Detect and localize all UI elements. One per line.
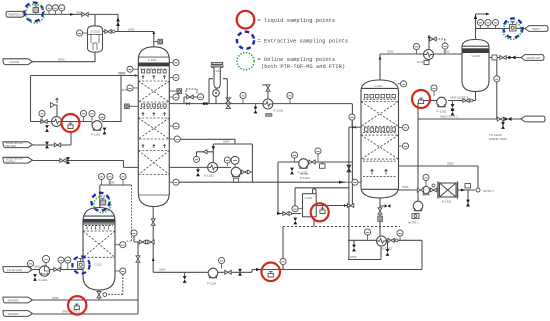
- red circle sampling wash water: [62, 114, 80, 132]
- wire return riser x422: [421, 240, 423, 269]
- pump P-1301: [413, 201, 423, 211]
- wire wash water return: [33, 133, 71, 145]
- instrument vent row 2: [485, 19, 491, 28]
- bottom seam C-1201: [138, 194, 169, 196]
- instrument above wash row: [39, 110, 45, 121]
- V-1303 band: [462, 48, 489, 53]
- black valve on make-up: [509, 56, 516, 60]
- black bowtie below left: [386, 249, 390, 256]
- svg-text:E-1201: E-1201: [274, 109, 284, 113]
- wire riser x352 from overhead: [351, 104, 353, 206]
- flag FLUE GAS: [3, 267, 33, 273]
- chimney ticks C-1101: [85, 225, 113, 227]
- instrument trio above C-1101 b: [107, 173, 113, 185]
- arrow at C-1201 top nozzle: [152, 31, 155, 34]
- valves on V-1303 drain: [463, 99, 473, 103]
- wire sidedraw y139: [180, 139, 252, 172]
- green dotted circle sampling point top-left: [26, 4, 45, 23]
- svg-text:LIQUID: LIQUID: [9, 60, 20, 64]
- svg-text:= liquid sampling points: = liquid sampling points: [258, 18, 336, 24]
- wire C-1201 bottoms drain: [152, 207, 154, 273]
- dashed tray line C-1301: [363, 160, 397, 162]
- svg-text:(both PTR-TOF-MS and FTIR): (both PTR-TOF-MS and FTIR): [261, 64, 345, 70]
- arrow into column on reflux header: [135, 74, 139, 77]
- svg-text:SMS: SMS: [128, 28, 135, 32]
- black valve bottom line 2: [238, 269, 242, 276]
- svg-text:NOTE 1: NOTE 1: [408, 221, 419, 225]
- instrument LI on S-1201: [76, 30, 87, 36]
- black valve on supply: [66, 157, 70, 164]
- small bowtie before pump: [417, 188, 423, 192]
- black valve pair y119: [497, 117, 511, 121]
- wire E-1301 feed y190: [399, 189, 439, 191]
- spray arrows row 2: [142, 113, 166, 116]
- instrument right of pump: [99, 114, 105, 120]
- wire into C-1201 top: [153, 32, 155, 47]
- column C-1201 shell: [138, 47, 169, 207]
- packing section 2 C-1201: [138, 118, 169, 139]
- wire control valve stem: [51, 105, 58, 122]
- instrument C-1301 right y127: [399, 124, 409, 130]
- reboiler E-1302: [377, 236, 387, 246]
- black valve on return: [45, 142, 49, 149]
- svg-text:V-1303: V-1303: [472, 54, 481, 58]
- flag TREATED GAS: [6, 11, 26, 17]
- valve on flue gas: [54, 268, 60, 272]
- instrument left of E-1304: [413, 43, 419, 54]
- chimney tray row 2 C-1301: [365, 128, 396, 131]
- instrument overhead a: [198, 94, 204, 100]
- black valve under outlet: [466, 200, 470, 207]
- extractive sample box top-left: [33, 6, 39, 15]
- wire bottom main right y269.5: [252, 269, 422, 271]
- heat exchanger wash water cooler: [52, 117, 62, 127]
- wire D-1201 drop leg: [215, 88, 217, 103]
- wire E-1304 vent: [428, 36, 430, 49]
- svg-text:K-1101: K-1101: [38, 278, 48, 282]
- wire downcomer x30.5: [30, 76, 32, 122]
- column C-1301 shell: [361, 80, 399, 198]
- heat exchanger E-1202: [208, 162, 218, 172]
- instrument on flue gas a: [27, 260, 33, 269]
- valves after reboiler: [388, 238, 398, 242]
- black valve reboiler left: [352, 245, 356, 252]
- C-1301 bottoms drain with trim: [380, 198, 384, 240]
- check valve on S-1201 outlet: [112, 30, 115, 33]
- svg-text:SMS: SMS: [402, 185, 409, 189]
- instrument on C-1201 right mid: [169, 94, 179, 100]
- instrument at riser x281: [280, 258, 286, 264]
- black valve on reflux: [352, 126, 355, 129]
- svg-text:= Online sampling points: = Online sampling points: [258, 57, 336, 63]
- svg-text:TREATED GAS: TREATED GAS: [8, 13, 26, 16]
- instrument right of E-1304: [442, 43, 448, 54]
- wire x253 to header: [251, 172, 253, 182]
- red circle sampling bottom line: [261, 263, 280, 282]
- wire bottom main left y272.3: [153, 270, 252, 273]
- spray arrows row 1: [142, 76, 166, 79]
- pump small cluster: [422, 186, 429, 194]
- wire water line 2: [33, 313, 138, 315]
- double valve overhead vertical: [226, 98, 231, 108]
- flag VENT: [525, 26, 548, 32]
- valve on C-1101 drain: [97, 291, 107, 297]
- wire x418 riser: [417, 119, 419, 201]
- svg-text:D-1201: D-1201: [214, 70, 223, 73]
- wire wash water supply: [33, 161, 208, 168]
- flag WASH WATER RETURN: [3, 142, 33, 148]
- wire treated gas main: [26, 13, 118, 15]
- valve pair on drain: [378, 208, 382, 214]
- wire S-1201 outlet: [103, 31, 154, 33]
- chimney tray row 1 C-1301: [365, 94, 396, 97]
- arrow on header y184: [339, 181, 345, 184]
- instrument C-1101 right side: [115, 268, 126, 274]
- svg-text:SMS: SMS: [223, 140, 230, 144]
- extractive sample box C-1101 feed: [78, 259, 85, 269]
- black valve pair cluster: [196, 169, 200, 176]
- valve on feed: [283, 212, 292, 216]
- green dotted circle sampling C-1101 top: [94, 196, 111, 213]
- box NOTE1 under P-1301: [412, 214, 419, 219]
- wire E-1202 feed drop: [212, 144, 214, 163]
- wire D-1201 bracket right: [223, 79, 227, 104]
- wire dashed drop right: [126, 185, 132, 241]
- spray arrows row 3: [142, 145, 166, 148]
- instrument C-1301 left y184: [345, 179, 361, 185]
- wire liquid return header y226.5: [283, 226, 400, 228]
- wire down to S-1201 top: [94, 14, 96, 26]
- arrow on bottom line: [256, 268, 261, 271]
- svg-text:SMS: SMS: [58, 58, 65, 62]
- arrow on E-1304 vent: [428, 35, 431, 39]
- instrument vent row 3: [492, 19, 498, 28]
- svg-text:SMS: SMS: [108, 181, 115, 185]
- flag WATER 1: [3, 297, 33, 303]
- svg-text:S-1201: S-1201: [91, 30, 101, 34]
- blower K-1101: [39, 266, 49, 276]
- packing section 1 C-1301: [361, 102, 399, 127]
- gray box on drain: [378, 216, 383, 222]
- valve on E-1201 vent: [266, 85, 270, 91]
- up arrow at bottoms corner: [152, 258, 155, 262]
- wire C-1101 drain: [98, 290, 100, 300]
- instrument on C-1201 right y126: [169, 123, 179, 129]
- wire instrument L-bracket: [184, 97, 197, 104]
- valve overhead 1: [187, 95, 193, 99]
- wire flue gas feed: [33, 269, 83, 271]
- pump P-1201: [92, 121, 102, 131]
- svg-text:SMS: SMS: [350, 255, 357, 259]
- wire pump P-1202 suction y161: [278, 161, 352, 163]
- wire long header y184: [179, 181, 345, 183]
- instrument on C-1201 left y69: [127, 66, 138, 72]
- wire to lean amine tank drop: [502, 119, 504, 129]
- flag amine recycle: [521, 116, 545, 122]
- svg-text:WATER: WATER: [8, 312, 19, 316]
- svg-text:V-1304: V-1304: [305, 197, 313, 200]
- trap circle under D-1201: [213, 90, 220, 97]
- wire C-1301 side to note1 y166: [399, 166, 479, 188]
- valve after P-1203: [242, 170, 248, 174]
- svg-text:SMS: SMS: [121, 88, 128, 92]
- vent arrow V-1303: [474, 13, 490, 19]
- valve pair on S-1201 outlet: [105, 30, 111, 34]
- wire C-1301 overhead riser: [379, 54, 381, 80]
- instrument C-1101 upper right: [115, 242, 126, 248]
- box under E-1304: [424, 61, 429, 65]
- valve on vent: [430, 37, 436, 41]
- svg-text:SMS: SMS: [76, 11, 83, 15]
- wire reboiler run y240.3: [348, 239, 377, 241]
- svg-text:P-1201: P-1201: [91, 133, 101, 137]
- valve after P-1104: [225, 270, 231, 274]
- svg-text:C-1301: C-1301: [374, 84, 383, 88]
- instrument on C-1201 right y184: [169, 179, 179, 185]
- instrument P-1202 suction: [291, 152, 297, 162]
- wire red sample to sms line: [417, 103, 419, 119]
- box after E-1301: [465, 184, 471, 189]
- svg-text:WATER: WATER: [8, 298, 19, 302]
- black arrow on feed: [277, 212, 282, 215]
- blue dashed circle sampling top right: [503, 18, 522, 37]
- box under E-1201: [266, 113, 273, 116]
- svg-text:SUPPLY: SUPPLY: [6, 160, 16, 164]
- column C-1101 shell: [83, 208, 115, 291]
- instrument on x494 riser: [494, 76, 500, 82]
- svg-text:SMS: SMS: [34, 265, 41, 269]
- wire V-1303 bottom drain: [448, 92, 476, 101]
- wire HX to pump: [217, 166, 231, 168]
- black valve under P-1202: [290, 168, 294, 175]
- legend blue dashed circle: extractive sampling points: [237, 32, 254, 49]
- C-1101 band dark: [83, 215, 115, 217]
- valve after P-1202: [309, 160, 315, 164]
- wire pump discharge y172: [242, 171, 253, 173]
- valve on return: [54, 143, 60, 147]
- box instrument on C-1201 right: [169, 89, 181, 94]
- black valve on riser x348: [347, 165, 351, 172]
- svg-text:P-1104: P-1104: [207, 282, 217, 286]
- wire E-1301 outlet: [457, 189, 475, 191]
- svg-text:P-1304: P-1304: [300, 176, 310, 180]
- instrument above P-1104: [218, 257, 224, 268]
- instrument left of reboiler: [364, 229, 370, 240]
- wire V-1303 vent riser: [476, 14, 490, 40]
- svg-text:SMS: SMS: [118, 71, 125, 75]
- instrument right of reboiler: [397, 230, 403, 240]
- black valve bottom line 1: [183, 272, 187, 283]
- flag LIQUID: [3, 59, 33, 65]
- exchanger E-1301 crossbox: [438, 182, 458, 199]
- valve on make-up: [500, 56, 506, 60]
- instrument cluster c: [231, 156, 239, 167]
- condenser E-1304: [424, 50, 434, 60]
- wire instrument stem branch: [133, 236, 135, 242]
- dashed tray line 2 C-1301: [363, 176, 397, 178]
- box after P-1202: [320, 162, 326, 168]
- wire x494 riser: [496, 58, 498, 120]
- instrument cluster b: [224, 157, 230, 166]
- vessel S-1201: [88, 26, 103, 52]
- svg-text:SMS: SMS: [447, 162, 454, 166]
- wire bottoms branch to x139 riser: [134, 242, 153, 314]
- valve on supply: [60, 159, 66, 163]
- wire reflux into C-1301: [349, 126, 361, 128]
- note1 connector circle: [476, 188, 494, 193]
- sample box in extractive circle C-1101 top: [100, 198, 106, 205]
- svg-text:NOTE 1: NOTE 1: [483, 189, 494, 193]
- blue dashed circle sampling point top-left: [24, 3, 43, 22]
- black valve stack after P-1302: [451, 101, 455, 116]
- svg-text:SMS: SMS: [443, 50, 450, 54]
- packing section 3 C-1201: [138, 151, 169, 175]
- pump P-1202: [299, 159, 309, 169]
- wire C-1101 top riser: [99, 185, 101, 208]
- instrument cluster a: [193, 156, 199, 162]
- sample point V-1304: [320, 206, 325, 214]
- flag MAKE-UP: [521, 55, 544, 61]
- svg-text:C-1201: C-1201: [148, 58, 157, 62]
- wire pump to red sample: [421, 100, 437, 102]
- wire blowdown stems reboiler: [354, 240, 388, 249]
- condenser E-1201: [263, 99, 273, 109]
- blue dashed circle sampling C-1101 feed: [72, 256, 89, 273]
- sample point water line: [74, 304, 79, 309]
- black dots overhead: [203, 102, 208, 105]
- top seam C-1201: [138, 56, 169, 58]
- extractive sample box top right: [510, 22, 517, 32]
- svg-text:P-1302: P-1302: [437, 110, 447, 114]
- instrument left of V-1304: [292, 206, 303, 212]
- instrument vent row 1: [477, 19, 483, 28]
- wire riser x348: [348, 127, 350, 259]
- wire instrument header: [100, 184, 132, 186]
- instrument above P-1302: [431, 85, 437, 96]
- wire wash row y121.5: [31, 121, 93, 123]
- wire E-1201 vent riser: [262, 85, 268, 99]
- black vent arrow on riser: [116, 17, 120, 26]
- swan neck vent V-1304: [313, 189, 317, 194]
- box under P-1203: [234, 178, 239, 182]
- svg-text:E-1202: E-1202: [204, 174, 214, 178]
- svg-text:= Extractive sampling points: = Extractive sampling points: [258, 38, 349, 44]
- instrument PI on treated gas 1: [46, 5, 52, 15]
- instrument above pump 2: [89, 110, 95, 120]
- black valve on amine branch: [501, 122, 505, 129]
- control arrow on signal: [203, 150, 207, 154]
- wire vent header to sample: [476, 28, 528, 30]
- black valve after pump: [103, 128, 107, 135]
- valves on branch: [139, 240, 154, 244]
- wire C-1101 right instrument dashed: [108, 274, 123, 294]
- box instrument near C-1201 top: [154, 39, 163, 44]
- wire instrument signal y151.8: [197, 152, 214, 156]
- valve V-1304 outlet vertical: [344, 204, 354, 208]
- svg-text:SMS NOTE 2: SMS NOTE 2: [440, 115, 459, 119]
- black valve pair overhead: [254, 104, 258, 114]
- arrow overhead riser: [379, 56, 382, 60]
- sample point P-1302 suction: [418, 98, 423, 103]
- instrument above pump 1: [80, 110, 86, 121]
- red circle sampling water line: [68, 296, 86, 314]
- valve on wash row: [41, 120, 47, 124]
- wire overhead main y102.5: [169, 103, 352, 105]
- wire water line 1: [33, 299, 138, 301]
- black valve below hx: [45, 125, 49, 132]
- arrow after E-1301: [461, 189, 466, 192]
- packing section 2 C-1301: [361, 135, 399, 159]
- flag WATER 2: [3, 311, 33, 317]
- wire V-1304 outlet to riser: [316, 205, 352, 207]
- valve pair on drain: [151, 219, 155, 225]
- pump P-1302: [437, 97, 447, 107]
- instrument C-1301 right top: [398, 81, 407, 87]
- second header line: [295, 188, 349, 206]
- wire reboiler outlet: [386, 239, 422, 241]
- black bowtie stub at drain: [385, 204, 391, 207]
- instrument on flue gas b: [42, 255, 49, 266]
- sample point bottom line: [268, 272, 273, 277]
- instrument above reflux: [349, 114, 355, 127]
- wire reboiler bottom feed: [348, 247, 381, 260]
- packing section C-1101: [83, 231, 115, 257]
- wire reflux header y75.5: [31, 75, 139, 77]
- green dotted circle sampling top right: [503, 22, 521, 40]
- wire sms note2 line y119: [418, 118, 521, 120]
- svg-text:VENT: VENT: [532, 27, 540, 31]
- chimney tray row 2: [142, 104, 167, 107]
- red circle sampling V-1304: [311, 203, 329, 221]
- C-1301 bottom seam: [361, 188, 399, 190]
- svg-text:AMINE TANK: AMINE TANK: [489, 137, 507, 141]
- wire feed to V-1304: [278, 162, 301, 214]
- black valve under feed: [293, 218, 297, 225]
- feed arrows C-1301: [371, 169, 388, 174]
- wire vent valve dashed: [433, 39, 445, 43]
- wire overhead to condenser: [380, 53, 462, 55]
- svg-text:E-1301: E-1301: [442, 200, 452, 204]
- wire V-1304 bottom stub: [313, 218, 315, 227]
- black valve on line: [186, 102, 189, 105]
- black valve under blower: [33, 274, 37, 281]
- svg-text:SMS: SMS: [52, 296, 59, 300]
- instrument on C-1201 left y88: [127, 85, 138, 91]
- instrument PI on treated gas 3: [59, 5, 65, 15]
- C-1301 top seam: [361, 87, 399, 89]
- arrow on treated gas line: [70, 13, 75, 16]
- wire make-up line: [489, 57, 521, 59]
- svg-text:C-1101: C-1101: [94, 264, 102, 267]
- valve on treated gas line: [82, 12, 88, 16]
- instrument on C-1201 right at band: [169, 59, 179, 65]
- instrument on flue gas d: [65, 257, 71, 270]
- svg-text:MAKE-UP: MAKE-UP: [527, 56, 541, 60]
- pump P-1104 on bottom line: [208, 268, 218, 278]
- instrument trio above C-1101 c: [120, 173, 126, 185]
- control valve arrow: [51, 98, 59, 107]
- box on make-up line: [492, 55, 497, 60]
- dot after P-1203: [247, 171, 250, 174]
- svg-text:RETURN: RETURN: [6, 144, 17, 148]
- svg-text:SMS: SMS: [159, 268, 166, 272]
- legend red circle: liquid sampling points: [237, 11, 255, 29]
- legend green dotted circle: online sampling points: [237, 53, 254, 70]
- wire liquid line: [33, 52, 96, 62]
- wire riser right: [117, 14, 119, 31]
- vessel V-1303 shell: [462, 40, 489, 92]
- packing section 1 C-1201: [138, 81, 169, 102]
